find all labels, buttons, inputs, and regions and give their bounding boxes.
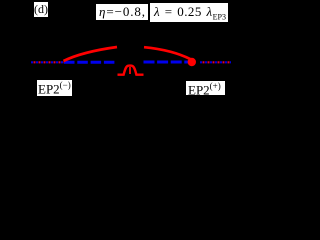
plot curves [0, 0, 234, 156]
dotted red+blue segment left (broken PT region) [31, 61, 65, 63]
red EP2(+) marker dot [188, 58, 196, 66]
label EP2(-) [37, 80, 72, 96]
label EP2(+) [186, 81, 225, 95]
red vertical tick inside bump [129, 67, 131, 74]
equation eta = -0.8 [96, 4, 148, 20]
blue dashed line right segment [144, 61, 190, 64]
red arc left branch [64, 47, 118, 61]
equation lambda = 0.25 lambda_EP3 [150, 3, 228, 22]
blue dashed line left segment [64, 61, 117, 64]
dotted red+blue segment right [200, 61, 231, 63]
panel label (d) [34, 2, 48, 17]
red arc right branch [144, 47, 191, 59]
red lower line with central bump [118, 66, 144, 75]
